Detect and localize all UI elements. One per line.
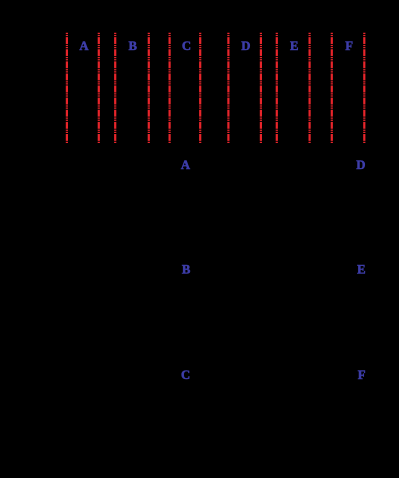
svg-text:A: A: [79, 39, 89, 53]
svg-text:D: D: [356, 158, 365, 172]
svg-text:B: B: [128, 39, 137, 53]
symmetry axis line 4 (right of letter B): [148, 33, 150, 143]
symmetry axis line 3 (left of letter B): [114, 33, 116, 143]
svg-text:E: E: [290, 39, 298, 53]
symmetry axis line 11 (left of letter F): [331, 33, 333, 143]
symmetry axis line 8 (right of letter D): [260, 33, 262, 143]
symmetry axis line 6 (right of letter C): [199, 33, 201, 143]
svg-text:E: E: [357, 263, 365, 277]
svg-text:F: F: [345, 39, 353, 53]
svg-text:A: A: [181, 158, 191, 172]
symmetry axis line 9 (left of letter E): [276, 33, 278, 143]
symmetry axis line 12 (right of letter F): [363, 33, 365, 143]
symmetry axis line 1 (left of letter A): [66, 33, 68, 143]
symmetry axis line 7 (left of letter D): [227, 33, 229, 143]
symmetry axis line 5 (left of letter C): [169, 33, 171, 143]
svg-text:C: C: [181, 368, 190, 382]
symmetry axis line 2 (right of letter A): [98, 33, 100, 143]
symmetry axis line 10 (right of letter E): [309, 33, 311, 143]
svg-text:B: B: [182, 263, 191, 277]
svg-text:C: C: [182, 39, 191, 53]
svg-text:F: F: [358, 368, 366, 382]
svg-text:D: D: [241, 39, 250, 53]
